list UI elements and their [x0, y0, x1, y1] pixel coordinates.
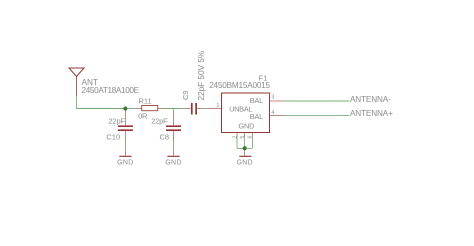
svg-text:2450BM15A0015: 2450BM15A0015: [209, 81, 270, 90]
svg-text:1: 1: [216, 103, 219, 109]
pin 1 stub: [207, 108, 222, 110]
bottom pin stubs (gnd pins): [236, 133, 238, 137]
svg-text:22pF: 22pF: [151, 116, 168, 125]
ground GND (balun): [236, 150, 252, 166]
svg-text:C8: C8: [160, 133, 170, 142]
balun F1 2450BM15A0015: [207, 93, 284, 137]
resistor R11: [135, 106, 165, 111]
svg-text:2: 2: [232, 136, 238, 139]
wire pin3 to ANTENNA-: [284, 100, 350, 102]
svg-text:GND: GND: [236, 159, 252, 166]
svg-text:GND: GND: [117, 159, 133, 166]
capacitor C10: [118, 109, 133, 143]
wire junction to R11: [125, 108, 135, 110]
capacitor C8: [166, 112, 181, 143]
svg-text:22pF: 22pF: [109, 116, 126, 125]
wire C10 to GND: [124, 142, 126, 150]
junction node on gnd wire: [243, 146, 247, 150]
wire junction to GND: [244, 148, 246, 150]
svg-text:0R: 0R: [138, 112, 148, 121]
ground GND (C10): [117, 150, 133, 166]
wire C8 to GND: [173, 142, 175, 150]
wire pin4 to ANTENNA+: [284, 115, 350, 117]
svg-text:GND: GND: [165, 159, 181, 166]
wire balun gnd pins down: [236, 137, 238, 149]
svg-text:2450AT18A100E: 2450AT18A100E: [82, 86, 140, 95]
pin 3 stub: [270, 100, 285, 102]
wire joining gnd pins: [237, 147, 252, 149]
svg-text:5: 5: [240, 136, 246, 139]
svg-text:ANTENNA-: ANTENNA-: [350, 95, 391, 104]
junction node at C10 tap: [123, 107, 127, 111]
svg-text:R11: R11: [139, 97, 152, 106]
svg-text:4: 4: [271, 110, 274, 116]
wire T down to C8: [173, 109, 175, 112]
ground GND (C8): [165, 150, 181, 166]
svg-text:ANTENNA+: ANTENNA+: [350, 109, 393, 118]
svg-text:GND: GND: [238, 122, 254, 131]
pin 4 stub: [270, 115, 285, 117]
capacitor C9: [184, 103, 204, 115]
wire R11 to C9 with T to C8: [165, 108, 185, 110]
svg-text:3: 3: [271, 94, 274, 100]
svg-text:C9: C9: [181, 90, 190, 100]
antenna ANT: [69, 68, 84, 96]
svg-text:BAL: BAL: [250, 112, 263, 121]
wire antenna to junction: [77, 96, 126, 109]
svg-text:22pF 50V 5%: 22pF 50V 5%: [196, 50, 206, 100]
body: [222, 93, 270, 133]
svg-text:C10: C10: [106, 133, 120, 142]
svg-text:6: 6: [248, 136, 254, 139]
wire C9 to U pin1: [204, 108, 207, 110]
